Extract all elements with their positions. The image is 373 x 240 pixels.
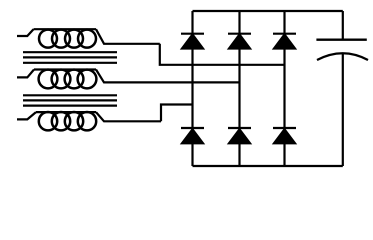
transformer T1 phase-C winding left lead xyxy=(17,112,36,119)
wire: phase A riser to node at y65 then across to leg 3 xyxy=(160,44,285,65)
transformer T1 phase-A winding left lead xyxy=(17,29,34,36)
diode D5 (top, leg 3) xyxy=(273,34,296,49)
capacitor C1 curved bottom plate xyxy=(317,53,368,60)
capacitor C1 top lead xyxy=(342,11,344,39)
diode D2 (bottom, leg 3) xyxy=(273,128,296,143)
transformer T1 phase-A winding coil xyxy=(34,29,97,47)
diode D3 (top, leg 2) xyxy=(228,34,251,49)
wire: bridge leg 2 vertical xyxy=(238,11,240,166)
capacitor C1 bottom lead xyxy=(342,53,344,166)
capacitor C1 top plate xyxy=(316,39,366,41)
transformer T1 core lines (upper set) xyxy=(23,52,117,63)
wire: negative bottom rail xyxy=(193,165,343,167)
transformer T1 core lines (lower set) xyxy=(23,95,117,105)
wire: phase C riser up to y104 then to leg 1 xyxy=(161,105,193,122)
transformer T1 phase-C winding coil xyxy=(36,112,96,130)
wire: phase B winding exit lead to diode leg 2 xyxy=(96,70,240,83)
transformer T1 phase-B winding left lead xyxy=(17,70,34,78)
wire: bridge leg 1 vertical xyxy=(191,11,193,166)
transformer T1 phase-B winding coil xyxy=(34,70,96,89)
diode D1 (top, leg 1) xyxy=(181,34,204,49)
wire: phase A winding exit lead xyxy=(96,29,160,44)
diode D6 (bottom, leg 2) xyxy=(228,128,251,143)
wire: positive top rail xyxy=(193,10,343,12)
wire: phase C winding exit lead xyxy=(96,112,161,121)
diode D4 (bottom, leg 1) xyxy=(181,128,204,143)
wire: bridge leg 3 vertical xyxy=(283,11,285,166)
